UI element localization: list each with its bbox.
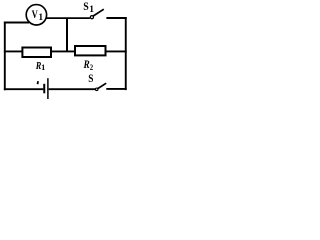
svg-text:1: 1 [89, 5, 94, 15]
svg-text:1: 1 [41, 63, 45, 72]
svg-text:S: S [83, 0, 89, 13]
svg-text:V: V [32, 7, 38, 21]
svg-text:S: S [88, 71, 93, 85]
svg-text:R: R [83, 59, 90, 71]
svg-text:1: 1 [38, 13, 43, 23]
